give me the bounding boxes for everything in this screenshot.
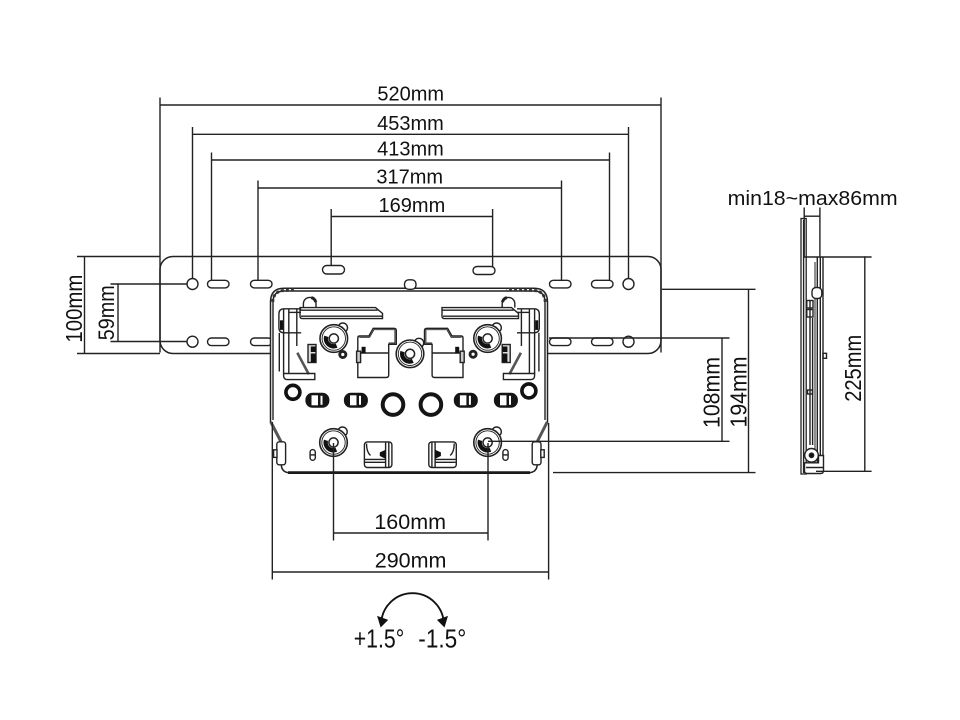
dim 225mm — [864, 256, 866, 471]
side tab right — [532, 442, 541, 465]
side view — [801, 208, 872, 475]
bottom clips — [364, 442, 456, 468]
side tabs — [274, 442, 545, 465]
small ring left — [286, 385, 300, 399]
row2 circle left — [187, 336, 198, 347]
dim 59mm — [117, 284, 119, 342]
bottom clip right — [429, 442, 457, 468]
dim 194mm — [748, 289, 750, 472]
svg-text:160mm: 160mm — [374, 510, 446, 534]
top notch slot right — [473, 267, 495, 275]
side tab left — [277, 442, 286, 465]
dim 100mm — [84, 257, 86, 354]
barrel 1 — [305, 393, 329, 408]
svg-text:108mm: 108mm — [699, 357, 725, 428]
dim 169mm — [331, 216, 492, 218]
dome bump left — [303, 297, 316, 307]
mount profile — [816, 258, 818, 466]
top notch slot left — [323, 266, 345, 275]
row2 slot — [550, 338, 572, 346]
wall plate outline — [160, 257, 661, 354]
bracket body — [271, 280, 548, 473]
corner fold hatch right — [507, 290, 546, 302]
bracket inner edge — [273, 291, 545, 420]
hex nut right — [469, 350, 477, 358]
row1 slot — [208, 280, 230, 288]
svg-text:169mm: 169mm — [379, 195, 446, 217]
small ring right — [522, 384, 536, 398]
top center tab — [405, 280, 417, 290]
bottom clip left — [364, 442, 392, 468]
bracket outline — [271, 288, 548, 473]
bracket bottom thick edge — [288, 471, 530, 474]
middle clips — [357, 328, 465, 377]
small pill slots bottom — [310, 450, 508, 461]
right middle clip — [425, 328, 464, 377]
left middle clip — [358, 328, 397, 377]
pill slot right — [503, 450, 508, 461]
svg-text:min18~max86mm: min18~max86mm — [728, 187, 898, 210]
dim 108mm — [721, 338, 723, 441]
rails — [273, 290, 546, 319]
left rail — [300, 308, 383, 319]
right corner box and arm (mirror) — [502, 309, 539, 380]
svg-text:413mm: 413mm — [377, 139, 444, 161]
tilt arc — [377, 593, 448, 627]
dim 160mm — [334, 532, 489, 534]
row2 slot — [251, 338, 273, 346]
svg-text:+1.5°: +1.5° — [354, 624, 405, 654]
row2 circle right — [623, 336, 634, 347]
dome bump right — [502, 297, 515, 307]
svg-text:453mm: 453mm — [377, 113, 444, 135]
row1 circle right — [623, 279, 634, 290]
row2 slot — [592, 338, 614, 346]
dim 520mm — [160, 104, 661, 106]
row1 slot — [251, 280, 273, 288]
dim 413mm — [212, 159, 610, 161]
row1 slot — [592, 280, 614, 288]
hex nut left — [339, 351, 347, 359]
corner fold hatch left — [273, 290, 295, 302]
row1 slot — [550, 280, 572, 288]
svg-text:100mm: 100mm — [61, 275, 87, 343]
svg-text:317mm: 317mm — [376, 167, 443, 189]
dim 290mm — [272, 571, 548, 573]
knob top-center — [396, 338, 424, 367]
big ring left — [383, 394, 404, 415]
knob top-right — [474, 323, 502, 352]
dim 453mm — [193, 133, 629, 135]
svg-text:-1.5°: -1.5° — [418, 624, 466, 654]
svg-text:59mm: 59mm — [94, 285, 119, 340]
svg-text:520mm: 520mm — [377, 84, 444, 106]
plate holes — [187, 266, 634, 348]
svg-text:194mm: 194mm — [726, 357, 752, 428]
left corner box and arm — [279, 309, 316, 380]
pill slot left — [310, 450, 315, 461]
middle row rings and barrels — [286, 384, 536, 415]
right rail — [442, 308, 519, 319]
knob bottom-left — [320, 427, 348, 456]
svg-text:225mm: 225mm — [840, 335, 866, 402]
right chamfer — [537, 422, 547, 443]
row1 circle left — [187, 279, 198, 290]
row2 slot — [208, 338, 230, 346]
big ring right — [421, 394, 442, 415]
labels — [376, 84, 897, 218]
dim 317mm — [258, 187, 562, 189]
knob bottom-right — [474, 427, 502, 456]
left chamfer — [271, 422, 282, 443]
profile parts — [812, 288, 822, 299]
barrel 4 — [494, 393, 518, 408]
knob top-left — [320, 323, 348, 352]
panel — [801, 219, 806, 475]
barrel 3 — [454, 393, 478, 408]
min/max dim — [804, 215, 820, 217]
svg-text:290mm: 290mm — [375, 549, 447, 573]
barrel 2 — [344, 393, 368, 408]
